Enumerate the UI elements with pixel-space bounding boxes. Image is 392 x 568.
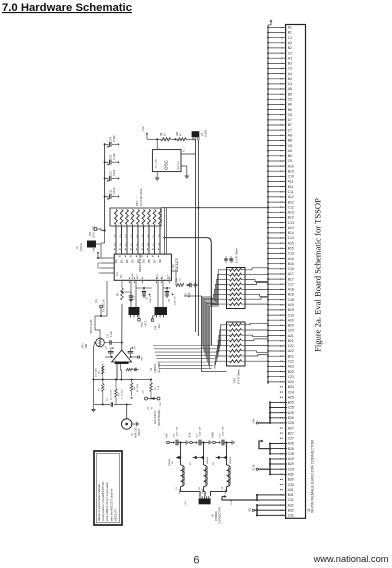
svg-text:A18: A18 <box>288 288 294 292</box>
svg-text:B5: B5 <box>288 92 292 96</box>
svg-text:C11: C11 <box>288 190 294 194</box>
BNC ground <box>132 423 137 425</box>
pin group tie A29-A30 <box>269 459 271 474</box>
inductor L2 <box>204 465 208 487</box>
svg-text:C4: C4 <box>288 82 292 86</box>
svg-text:C19: C19 <box>288 313 294 317</box>
svg-text:-5V: -5V <box>248 508 252 512</box>
svg-text:NC (0.1uF): NC (0.1uF) <box>111 389 113 400</box>
test point TP3 +REF <box>138 315 140 319</box>
capacitor C14 0.1uF <box>105 143 109 145</box>
+5V arrow feeding oscillator <box>146 133 149 135</box>
RP2 resistor element 4 <box>227 284 230 286</box>
resistor R1 column <box>115 380 117 390</box>
svg-text:D2: D2 <box>125 259 129 263</box>
wire L2 top <box>203 443 205 466</box>
svg-text:A6: A6 <box>288 103 292 107</box>
RP2 output wires to bus <box>245 268 268 304</box>
long +5V wire to connector bus <box>161 207 268 209</box>
+5VD arrow left of U1 <box>97 252 100 254</box>
wire op-amp output net <box>95 281 107 316</box>
potentiometer VR1 500 <box>96 338 105 347</box>
svg-text:A11: A11 <box>288 180 294 184</box>
svg-text:10uF, 16V: 10uF, 16V <box>177 426 179 436</box>
terminal circle +5VA <box>213 441 216 444</box>
svg-text:C28: C28 <box>288 452 294 456</box>
svg-text:1K (250): 1K (250) <box>137 384 139 392</box>
svg-text:0.1uF: 0.1uF <box>112 187 116 194</box>
svg-text:A1: A1 <box>288 26 292 30</box>
capacitor C22 10uF polarized <box>173 441 175 444</box>
pin group tie B31-C31 <box>256 495 258 500</box>
note box text <box>97 481 118 521</box>
U1 pin number marks bottom <box>129 278 170 284</box>
svg-text:C16: C16 <box>109 154 113 159</box>
svg-text:C17: C17 <box>288 282 294 286</box>
RP2 resistor element 8 <box>227 303 230 305</box>
svg-text:B3: B3 <box>288 62 292 66</box>
RP2 input nested elbows <box>202 270 227 369</box>
resistor R8 column <box>102 366 104 380</box>
wire L3 top <box>226 443 228 466</box>
RP2 resistor element 3 <box>227 279 230 281</box>
svg-text:+5V: +5V <box>142 126 145 131</box>
U1 left pin stubs <box>101 258 114 273</box>
RP1 resistor element 6 <box>142 210 145 225</box>
U1 bottom pin wires to jumpers <box>130 280 132 307</box>
RP3 resistor element 2 <box>227 329 230 331</box>
svg-text:8 X 47 Ohms: 8 X 47 Ohms <box>236 248 239 263</box>
svg-text:10uF, 16V: 10uF, 16V <box>200 426 202 436</box>
svg-text:A3: A3 <box>288 56 292 60</box>
terminal wire left <box>105 356 112 358</box>
svg-text:C29: C29 <box>288 467 294 471</box>
svg-text:B9: B9 <box>288 154 292 158</box>
svg-text:1N5818: 1N5818 <box>230 456 232 464</box>
RP3 input nested elbows <box>215 325 227 369</box>
svg-text:TP_ADC IN: TP_ADC IN <box>103 299 106 312</box>
svg-text:470 (250): 470 (250) <box>96 368 98 377</box>
harness bundle to U1 area <box>153 346 219 369</box>
RP1 right side verticals <box>164 208 166 254</box>
svg-text:B13: B13 <box>288 216 294 220</box>
data wires RP1 to U1 <box>116 226 160 254</box>
wire L1 to J5 <box>181 487 201 497</box>
oscillator Y1 OSC body <box>152 150 181 172</box>
svg-text:DGTL GND: DGTL GND <box>93 225 96 238</box>
svg-text:www.national.com: www.national.com <box>313 554 389 564</box>
svg-text:A7: A7 <box>288 118 292 122</box>
svg-text:A20: A20 <box>288 318 294 322</box>
svg-text:+5VA: +5VA <box>212 432 215 438</box>
svg-text:C31: C31 <box>288 498 294 502</box>
bypass capacitor C2 right of op-amp <box>128 351 134 353</box>
RP3 resistor element 5 <box>227 345 230 347</box>
terminal square right TP6 <box>138 356 140 358</box>
svg-text:B28: B28 <box>288 447 294 451</box>
wire J1 to U1 area <box>96 244 101 258</box>
svg-text:+5V: +5V <box>185 501 187 505</box>
connector pin number marks <box>280 27 283 516</box>
svg-text:A27: A27 <box>288 426 294 430</box>
svg-text:A29: A29 <box>288 457 294 461</box>
svg-text:C21: C21 <box>288 344 294 348</box>
svg-text:CLK: CLK <box>168 274 170 279</box>
svg-text:C27: C27 <box>288 437 294 441</box>
svg-text:B10: B10 <box>288 169 294 173</box>
wire group to -5.2V terminal <box>259 468 271 470</box>
svg-text:OE: OE <box>158 259 162 263</box>
svg-text:A23: A23 <box>288 365 294 369</box>
svg-text:B21: B21 <box>288 339 294 343</box>
svg-text:CONNECTOR: CONNECTOR <box>218 507 222 524</box>
svg-text:C5: C5 <box>288 98 292 102</box>
svg-text:B29: B29 <box>288 462 294 466</box>
RP1 resistor element 3 <box>126 210 129 225</box>
wire to BNC <box>126 405 128 420</box>
svg-text:C11: C11 <box>109 189 113 194</box>
svg-text:B16: B16 <box>288 262 294 266</box>
svg-text:B18: B18 <box>288 293 294 297</box>
capacitor C15 <box>130 292 132 295</box>
wire L1 top <box>180 443 182 466</box>
svg-text:+5V: +5V <box>166 433 169 438</box>
svg-text:C23: C23 <box>288 375 294 379</box>
svg-text:8 X 47 Ohms: 8 X 47 Ohms <box>238 369 241 384</box>
ground at oscillator <box>185 175 189 179</box>
RP1 resistor element 9 <box>159 210 162 225</box>
wire group to +5V terminal <box>259 422 271 424</box>
svg-text:C25: C25 <box>288 406 294 410</box>
RP1 resistor element 4 <box>131 210 134 225</box>
svg-text:RP3: RP3 <box>234 378 237 383</box>
svg-text:0.1uF: 0.1uF <box>112 135 116 142</box>
capacitor C23 10uF polarized <box>196 441 198 444</box>
svg-text:C15: C15 <box>134 295 136 300</box>
wire TP1 to Vin net <box>100 308 102 316</box>
svg-text:+5V: +5V <box>252 419 256 424</box>
feedback column wire <box>93 346 95 405</box>
svg-text:B12: B12 <box>288 200 294 204</box>
junction node OSC Vcc <box>156 138 158 140</box>
bus junction dots <box>267 27 269 383</box>
pin group tie A28-C28 with arrow <box>269 444 271 454</box>
resistor R3 termination <box>102 396 104 405</box>
resistor pack RP1 body <box>110 208 161 226</box>
power connector J5 black body <box>199 499 211 505</box>
svg-text:ADC1173: ADC1173 <box>175 258 179 272</box>
svg-text:A17: A17 <box>288 272 294 276</box>
svg-text:INPUT GAIN: INPUT GAIN <box>90 320 93 334</box>
svg-text:A31: A31 <box>288 488 294 492</box>
svg-text:C32: C32 <box>288 514 294 518</box>
svg-text:D1: D1 <box>120 259 124 263</box>
capacitor C24 10uF polarized <box>219 441 221 444</box>
svg-text:1N5818: 1N5818 <box>169 458 171 466</box>
IC U1 ADC1173 body <box>114 254 171 280</box>
thick clock wire to RP2 harness <box>165 237 208 239</box>
svg-text:C10: C10 <box>288 175 294 179</box>
ground stub bottom net <box>93 405 95 409</box>
wire OSC gnd pin right <box>181 166 187 175</box>
svg-text:B15: B15 <box>288 247 294 251</box>
svg-text:D7: D7 <box>153 259 157 263</box>
svg-text:D6: D6 <box>147 259 151 263</box>
svg-text:B22: B22 <box>288 354 294 358</box>
resistor pack RP3 body <box>227 322 246 366</box>
svg-text:C1: C1 <box>288 36 292 40</box>
jumper terminal row JP <box>145 397 148 400</box>
svg-text:A15: A15 <box>288 241 294 245</box>
svg-text:A28: A28 <box>288 442 294 446</box>
svg-text:5.2K: 5.2K <box>158 385 160 390</box>
wire B31 group to arrow terminal <box>222 497 257 501</box>
svg-text:B31: B31 <box>288 493 294 497</box>
svg-text:VRT: VRT <box>162 274 164 279</box>
inductor L1 <box>181 465 185 487</box>
resistor R2 bias <box>150 379 152 381</box>
svg-text:B17: B17 <box>288 277 294 281</box>
RP1 resistor element 1 <box>115 210 118 225</box>
ground at C22 <box>186 440 188 444</box>
svg-text:B8: B8 <box>288 139 292 143</box>
svg-text:C18: C18 <box>288 298 294 302</box>
terminal circle -5V at A32 group <box>255 509 258 511</box>
svg-text:ADC1175.: ADC1175. <box>114 508 118 521</box>
ground at C23 <box>209 440 211 444</box>
svg-text:C14: C14 <box>288 236 294 240</box>
svg-text:TP1: TP1 <box>96 298 99 303</box>
svg-text:7.0 Hardware Schematic: 7.0 Hardware Schematic <box>2 2 132 14</box>
BNC J3 ANALOG INPUT <box>122 419 132 429</box>
svg-text:-REF: -REF <box>158 323 161 329</box>
capacitor C8 47pF <box>187 284 189 286</box>
svg-text:D5: D5 <box>142 259 146 263</box>
op-amp U2 LM6154 triangle <box>112 350 132 362</box>
wire J4 to clock line <box>197 140 199 336</box>
svg-text:C8: C8 <box>288 144 292 148</box>
svg-text:C3: C3 <box>288 67 292 71</box>
svg-text:1K: 1K <box>164 133 167 136</box>
svg-text:+REF: +REF <box>145 320 148 327</box>
connector pin labels A1-C32 <box>288 26 294 518</box>
op-amp input wires below base <box>116 364 118 380</box>
wire clock net down <box>195 139 197 332</box>
svg-text:A8: A8 <box>288 134 292 138</box>
connector J2 96-pin DIN body <box>286 25 306 519</box>
svg-text:A10: A10 <box>288 164 294 168</box>
diode D2 <box>193 457 204 459</box>
RP2 resistor element 2 <box>227 274 230 276</box>
diode D3 <box>216 457 227 459</box>
OSC ground stub bottom <box>156 172 158 177</box>
svg-text:LM6154: LM6154 <box>154 363 157 373</box>
svg-text:INPUT: INPUT <box>138 428 141 436</box>
svg-text:10uF, 6V: 10uF, 6V <box>150 294 152 303</box>
wire cap bus down to +5VD node <box>101 231 105 244</box>
svg-text:C15: C15 <box>288 252 294 256</box>
RP3 resistor element 1 <box>227 324 230 326</box>
svg-text:RD/T: RD/T <box>137 273 139 279</box>
svg-text:C22: C22 <box>288 360 294 364</box>
svg-text:C12: C12 <box>288 205 294 209</box>
RP3 output wires to bus <box>245 323 268 361</box>
svg-text:ADC INPUT: ADC INPUT <box>154 410 157 424</box>
svg-text:A13: A13 <box>288 211 294 215</box>
svg-text:0.1uF: 0.1uF <box>111 331 113 337</box>
svg-text:B19: B19 <box>288 308 294 312</box>
svg-text:C9: C9 <box>288 159 292 163</box>
resistor R10 1K at U1 right <box>171 271 176 285</box>
svg-text:B20: B20 <box>288 324 294 328</box>
svg-text:B24: B24 <box>288 385 294 389</box>
RP1 resistor element 8 <box>153 210 156 225</box>
RP2 resistor element 5 <box>227 288 230 290</box>
wire L2 to J5 <box>204 487 206 497</box>
op-amp output wire up <box>121 304 123 350</box>
svg-text:OUT: OUT <box>160 401 162 406</box>
svg-text:A4: A4 <box>288 72 292 76</box>
wire R11 to clock net <box>186 138 196 140</box>
svg-text:N.C. GND: N.C. GND <box>155 158 157 168</box>
svg-text:6: 6 <box>193 555 199 567</box>
svg-text:B32: B32 <box>288 509 294 513</box>
RP2 resistor element 1 <box>227 269 230 271</box>
resistor R5 column <box>102 384 105 392</box>
terminal circle -5.2V <box>190 441 193 444</box>
svg-text:9 X 2.2K Ohms: 9 X 2.2K Ohms <box>139 188 143 206</box>
svg-text:A32: A32 <box>288 503 294 507</box>
svg-text:POWER: POWER <box>214 511 218 521</box>
svg-text:0.1uF: 0.1uF <box>112 153 116 160</box>
svg-text:VRB: VRB <box>157 274 159 279</box>
svg-text:ADC1173CIJM: ADC1173CIJM <box>138 253 142 272</box>
capacitor C12 0.1uF <box>105 178 109 180</box>
resistor R11 47 <box>177 138 186 141</box>
svg-text:B26: B26 <box>288 416 294 420</box>
svg-text:B25: B25 <box>288 401 294 405</box>
svg-text:B14: B14 <box>288 231 294 235</box>
svg-text:GND OUT: GND OUT <box>178 160 180 170</box>
svg-text:A21: A21 <box>288 334 294 338</box>
wire +5V to R9 <box>147 138 161 140</box>
bottom net wire <box>94 404 111 406</box>
svg-text:A2: A2 <box>288 41 292 45</box>
return wire loop left of RP3 <box>184 295 202 297</box>
svg-text:A9: A9 <box>288 149 292 153</box>
svg-text:-5.2V: -5.2V <box>189 432 192 438</box>
note box frame <box>94 451 122 525</box>
decoupling cap bus wire <box>104 144 106 230</box>
svg-text:(CLC408): (CLC408) <box>158 362 161 373</box>
jumper J6 black body <box>129 307 140 315</box>
connector pin ground stub wires <box>268 27 286 382</box>
svg-text:A12: A12 <box>288 195 294 199</box>
svg-text:B7: B7 <box>288 123 292 127</box>
svg-text:10uF, 16V: 10uF, 16V <box>223 426 225 436</box>
svg-text:C13: C13 <box>288 221 294 225</box>
svg-text:C26: C26 <box>288 421 294 425</box>
svg-text:Figure 2a. Eval Board Schemati: Figure 2a. Eval Board Schematic for TSSO… <box>313 198 323 352</box>
svg-text:B2: B2 <box>288 46 292 50</box>
capacitor C13 0.1uF <box>110 340 111 344</box>
wire OSC output to clock net <box>181 153 196 155</box>
svg-text:A14: A14 <box>288 226 294 230</box>
wire Vin net to op-amp <box>95 316 100 338</box>
svg-text:C2: C2 <box>288 51 292 55</box>
svg-text:A19: A19 <box>288 303 294 307</box>
svg-text:(CLK): (CLK) <box>204 130 208 137</box>
terminal circle +5V <box>167 441 170 444</box>
feedback components right of inputs <box>126 368 133 370</box>
bypass capacitor C4 left of op-amp <box>108 351 114 353</box>
svg-text:+5V: +5V <box>143 390 145 394</box>
resistor R4 column <box>131 380 133 384</box>
svg-text:C13: C13 <box>108 333 110 338</box>
jumper J7 black body <box>155 307 168 315</box>
test point TP4 -REF <box>152 316 154 319</box>
capacitor C9 at VRB <box>143 288 145 291</box>
ground at C24 <box>232 440 234 444</box>
RP3 resistor element 8 <box>227 360 230 362</box>
svg-text:A5: A5 <box>288 87 292 91</box>
capacitor C11 0.1uF <box>105 196 109 198</box>
capacitor C6 at VRT <box>166 288 168 291</box>
pin group tie A32-C32 <box>256 505 258 515</box>
svg-text:C12: C12 <box>109 171 113 176</box>
svg-text:C30: C30 <box>288 483 294 487</box>
svg-text:500: 500 <box>85 343 88 348</box>
svg-text:A30: A30 <box>288 473 294 477</box>
svg-text:C24: C24 <box>288 390 294 394</box>
svg-text:C16: C16 <box>288 267 294 271</box>
svg-text:WR/B: WR/B <box>132 273 134 279</box>
svg-text:C7: C7 <box>288 128 292 132</box>
svg-text:C14: C14 <box>109 136 113 141</box>
svg-text:B4: B4 <box>288 77 292 81</box>
RP3 resistor element 6 <box>227 350 230 352</box>
svg-text:47.5 (250): 47.5 (250) <box>122 389 124 399</box>
wire R9 to R11 <box>171 138 178 140</box>
capacitor C16 0.1uF <box>105 161 109 163</box>
test point TP1 ADC IN <box>100 305 102 307</box>
RP2 resistor element 7 <box>227 298 230 300</box>
svg-text:B6: B6 <box>288 108 292 112</box>
svg-text:OSC: OSC <box>164 159 169 170</box>
svg-text:D0: D0 <box>114 259 118 263</box>
svg-text:1N5818: 1N5818 <box>207 456 209 464</box>
RP3 resistor element 4 <box>227 339 230 341</box>
diode D1 <box>176 457 181 459</box>
pin group tie B25-C26 <box>269 402 271 423</box>
svg-text:A22: A22 <box>288 349 294 353</box>
svg-text:J2: J2 <box>307 508 311 512</box>
inductor L3 <box>227 465 231 487</box>
svg-text:(BOTTOM 8th): (BOTTOM 8th) <box>158 409 161 426</box>
U1 pin number marks top <box>114 249 159 258</box>
svg-text:RP1: RP1 <box>135 200 139 206</box>
resistor R9 1K <box>161 138 171 141</box>
svg-text:-5.2V: -5.2V <box>252 464 256 471</box>
RP2 resistor element 6 <box>227 293 230 295</box>
ground bus wire left of connector <box>267 27 269 384</box>
+5V arrow at bus top <box>268 25 271 27</box>
resistor pack RP2 body <box>227 268 246 309</box>
svg-text:A16: A16 <box>288 257 294 261</box>
RP1 resistor element 2 <box>120 210 123 225</box>
RP1 resistor element 5 <box>137 210 140 225</box>
svg-text:B30: B30 <box>288 478 294 482</box>
